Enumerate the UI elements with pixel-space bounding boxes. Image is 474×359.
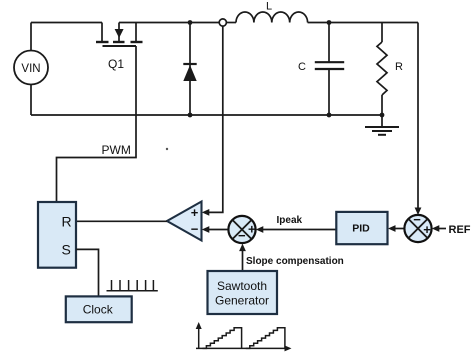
- sawtooth generator box: [208, 271, 278, 314]
- svg-text:−: −: [238, 228, 246, 243]
- arrowhead into comparator minus: [202, 226, 210, 233]
- svg-text:C: C: [298, 61, 306, 73]
- wire VIN bottom lead: [30, 85, 32, 116]
- RS latch U1: [38, 202, 76, 268]
- wire top rail left segment: [31, 22, 102, 24]
- svg-text:Generator: Generator: [215, 294, 269, 308]
- clock box: [66, 296, 132, 322]
- sawtooth waveform tooth 2: [246, 328, 285, 349]
- svg-text:+: +: [248, 221, 256, 236]
- svg-text:−: −: [413, 212, 421, 227]
- summer S2 reference: [404, 212, 431, 242]
- svg-text:L: L: [266, 1, 272, 13]
- svg-text:Q1: Q1: [108, 57, 124, 71]
- junction dot resistor bottom: [380, 113, 385, 118]
- svg-text:Ipeak: Ipeak: [277, 215, 303, 226]
- arrowhead into S1 right: [256, 226, 263, 233]
- svg-text:REF: REF: [449, 224, 471, 236]
- capacitor C: [298, 23, 344, 116]
- junction dot diode top: [188, 20, 193, 25]
- comparator U2: [167, 202, 202, 241]
- wire gate to PWM node: [57, 46, 137, 202]
- svg-text:Clock: Clock: [83, 303, 114, 317]
- diode D1: [183, 23, 196, 116]
- arrowhead into PID right: [388, 225, 396, 232]
- junction dot capacitor bottom: [327, 113, 332, 118]
- svg-text:PID: PID: [352, 223, 370, 235]
- wire REF input: [437, 228, 446, 230]
- sawtooth waveform tooth 1: [203, 328, 242, 349]
- arrowhead into comparator plus: [202, 209, 210, 216]
- stray speck: [166, 148, 168, 150]
- svg-text:+: +: [423, 222, 431, 237]
- wire S1 output to comparator minus: [207, 229, 228, 231]
- resistor R: [377, 23, 403, 116]
- wire sawtooth generator to S1: [242, 249, 244, 271]
- svg-text:VIN: VIN: [21, 63, 40, 75]
- wire top rail mid segment: [119, 22, 219, 24]
- voltage source VIN: [14, 51, 48, 85]
- wire S2 output to PID: [395, 228, 405, 230]
- ground: [365, 115, 399, 135]
- wire PID to S1 Ipeak: [261, 229, 336, 231]
- wire output feedback down right side: [417, 23, 419, 210]
- summer S1 slope compensation: [228, 216, 256, 243]
- svg-text:S: S: [62, 242, 71, 258]
- svg-text:−: −: [191, 222, 199, 237]
- wire top rail right segment: [308, 22, 418, 24]
- transistor Q1: [96, 23, 143, 72]
- node current-sense circle: [219, 19, 226, 26]
- sawtooth waveform axes: [196, 322, 292, 351]
- inductor L: [226, 1, 307, 23]
- PID box: [336, 212, 387, 244]
- wire comparator output to latch R input: [76, 220, 167, 222]
- arrowhead into S2 right: [432, 225, 440, 232]
- svg-text:+: +: [191, 205, 199, 220]
- junction dot capacitor top: [327, 20, 332, 25]
- svg-text:R: R: [62, 213, 72, 229]
- wire latch S input from clock: [76, 249, 99, 296]
- svg-text:PWM: PWM: [102, 143, 131, 157]
- svg-text:Slope compensation: Slope compensation: [246, 256, 344, 267]
- junction dot diode bottom: [188, 113, 193, 118]
- svg-text:Sawtooth: Sawtooth: [217, 279, 267, 293]
- clock pulses waveform: [107, 280, 158, 291]
- arrowhead into summer S2 top: [415, 208, 422, 216]
- arrowhead into S1 bottom: [239, 244, 246, 252]
- wire VIN top lead: [30, 23, 32, 51]
- wire current sense down to comparator plus: [207, 26, 223, 212]
- svg-text:R: R: [395, 61, 403, 73]
- wire bottom rail: [31, 114, 382, 116]
